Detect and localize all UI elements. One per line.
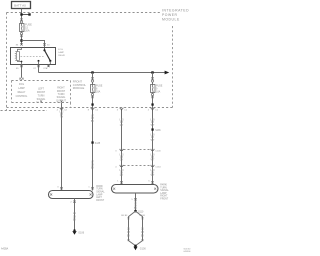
svg-text:MODULE: MODULE [73,86,85,90]
svg-text:BK: BK [141,234,145,237]
node splice on A0 feed [22,14,30,16]
terminal X below fuse F2 [91,96,93,98]
wire label below C164 right [151,169,156,177]
svg-text:RELAY: RELAY [58,54,65,57]
svg-text:A42BA: A42BA [1,248,9,251]
fuse F1 [20,24,25,32]
terminal X below fuse F1 [20,35,22,37]
fuse F3 [151,85,156,93]
relay linkage dashed [21,56,44,58]
wire from BATT A0 down into IPM [21,9,23,45]
svg-text:FRONT: FRONT [96,200,105,202]
wire relay pin 87A stub [48,65,50,68]
wire right turn output column [121,109,123,185]
relay K1 label [58,49,65,57]
svg-text:BK: BK [127,234,131,237]
svg-text:GY: GY [120,124,124,127]
svg-text:049306: 049306 [184,251,192,253]
wire relay pin 87 stub [38,65,40,73]
svg-text:WT: WT [151,159,155,162]
svg-text:FRONT: FRONT [160,199,169,201]
svg-text:BK: BK [134,207,138,210]
wire label below C164 left [120,169,125,177]
wire label fork right Z1 18 BK [141,227,145,237]
wire right lamp to splice [135,193,137,211]
svg-text:TURN: TURN [96,189,103,191]
svg-text:FOG: FOG [58,49,63,51]
terminal circle below fuse F2 [91,93,93,95]
svg-text:RIGHT: RIGHT [160,196,168,198]
wire label L63 18 GY [120,119,125,127]
fuse F3 value label [156,85,163,94]
wire coil top to pin 86 [18,48,22,52]
relay switch blade [44,48,46,51]
svg-text:G106: G106 [78,232,85,235]
wire fuse F2 column [92,73,94,191]
svg-text:BATT A0: BATT A0 [14,3,26,7]
svg-text:C164: C164 [155,166,161,168]
fuse F2 value label [96,85,103,94]
front control module label [73,80,87,90]
node junction of battery feed [20,39,22,41]
svg-text:GY: GY [120,174,124,177]
left lamp pin 1 [91,187,93,189]
terminal circle above fuse F1 [20,21,22,23]
wire label between connectors right [151,153,156,161]
node above C1 exit fuse F2 [91,103,93,105]
pin 87A terminal X [47,65,49,67]
in-line connector C100 row [124,149,151,151]
connector C1 exit fuse F2 [91,108,94,111]
in-line connector C164 row [124,165,151,167]
ground G100 [134,245,137,248]
wire label L62 18 TN [60,110,65,118]
wire left lamp to ground [74,199,76,231]
svg-text:C100: C100 [155,150,161,152]
svg-text:S136: S136 [155,130,161,132]
fuse F1 value label [25,24,32,33]
relay K1 coil [16,52,17,61]
svg-text:LEFT: LEFT [96,197,102,199]
svg-text:FOG: FOG [19,83,24,86]
wire label Z1 18 BK [73,212,77,222]
svg-text:POWER: POWER [162,13,178,17]
svg-text:WT: WT [151,174,155,177]
wire label fork left Z1 18 BK [127,227,131,237]
connector into front control module [20,78,23,80]
node fuse F2 tap [91,71,93,73]
svg-text:B/K BK: B/K BK [121,215,128,217]
wire relay output bus [39,72,166,74]
wire splice fork right branch [136,211,143,246]
terminal X below fuse F3 [151,96,153,98]
svg-text:INTEGRATED: INTEGRATED [162,9,189,13]
right lamp pin 6 [151,181,153,183]
svg-text:TN: TN [60,116,63,119]
terminal circle above fuse F3 [151,80,153,82]
svg-text:GY: GY [120,159,124,162]
lamp DS2 label [160,184,169,201]
wire fuse F3 column [152,73,154,185]
wire label between connectors left [120,153,125,161]
net label FOG LAMP RELAY CONTROL [16,83,28,98]
node fuse F3 tap [151,71,153,73]
pin 86 terminal X [20,43,22,45]
terminal X above fuse F3 [151,77,153,79]
svg-text:LAMP: LAMP [58,51,64,54]
svg-text:LAMP: LAMP [160,192,167,195]
right lamp pin 1 [120,181,122,183]
left lamp ground pin 2 [73,201,75,203]
wire junction to relay switch feed [22,41,45,48]
svg-text:BK: BK [91,166,95,169]
svg-text:G04 30: G04 30 [184,248,192,250]
svg-text:RELAY: RELAY [18,91,26,94]
connector C1 exit right turn [120,108,123,111]
svg-text:WT: WT [151,139,155,142]
node above C1 exit fuse F3 [151,103,153,105]
svg-text:BK: BK [91,120,95,123]
svg-text:G100: G100 [140,247,147,250]
node splice S135 [91,141,93,143]
svg-text:20A: 20A [25,29,30,32]
wire label L90 18 WT [151,119,156,127]
svg-text:WT: WT [151,124,155,127]
right lamp ground pin 5 [134,198,136,200]
lamp DS1 left front park turn lamp [49,191,94,199]
svg-text:PARK/: PARK/ [160,184,167,187]
terminal X above fuse F2 [91,77,93,79]
svg-text:PARK/: PARK/ [96,185,103,188]
svg-text:20A: 20A [96,90,101,93]
integrated power module dashed boundary [1,13,173,111]
fork branch lower connector marks [128,239,130,241]
svg-text:BK: BK [73,219,77,222]
terminal circle below fuse F1 [20,32,22,34]
svg-text:87A: 87A [43,67,47,70]
svg-text:MODULE: MODULE [162,18,180,22]
terminal circle above fuse F2 [91,80,93,82]
wire coil bottom to pin 85 [18,61,22,65]
FCM pin 4 [61,100,63,102]
FCM pin 10 [40,100,42,102]
pin 30 terminal X [43,43,45,45]
battery feed box BATT A0 [12,2,31,9]
bus arrow to right [165,71,170,75]
wire label L7 18 BK [91,115,95,123]
wire label Z1 18 BK right [134,202,138,210]
svg-text:SIGNAL: SIGNAL [160,189,169,192]
connector C2 exit at IPM bottom [60,108,63,111]
wire relay pin 85 stub [21,65,23,78]
node splice S136 [151,128,153,130]
svg-text:S135: S135 [95,143,101,145]
left lamp pin 3 [60,187,62,189]
connector C1 exit fuse F3 [151,108,154,111]
terminal circle below fuse F3 [151,93,153,95]
svg-text:L/B BK: L/B BK [139,215,146,217]
lamp DS2 right front park turn lamp [112,185,159,194]
wire left turn output column [61,103,63,191]
fork branch connector marks [128,217,130,219]
ground G106 [73,229,75,231]
pin 85 terminal X [20,65,22,67]
node splice S110 [134,210,136,212]
front control module dashed box [12,81,71,108]
svg-text:10A: 10A [156,90,161,93]
wire splice fork left branch [129,211,136,246]
svg-text:CONTROL: CONTROL [16,95,28,98]
lamp DS1 label [96,185,105,202]
svg-text:SIGNAL: SIGNAL [96,191,105,194]
svg-text:TURN: TURN [160,187,167,189]
integrated power module label [162,9,189,22]
relay K1 FOG LAMP RELAY box [11,48,56,65]
pin 87 terminal X [37,65,39,67]
terminal X above fuse F1 [20,19,22,21]
net label LEFT FRONT TURN SIGNAL [37,88,46,102]
wire label L7 18 BK lower [91,160,95,169]
svg-text:LAMP: LAMP [96,193,103,196]
fuse F2 [91,85,96,93]
net label RIGHT FRONT TURN SIGNAL OUTPUT [56,87,66,103]
svg-text:LAMP: LAMP [18,87,25,90]
wire label L90 18 WT lower [151,134,156,142]
